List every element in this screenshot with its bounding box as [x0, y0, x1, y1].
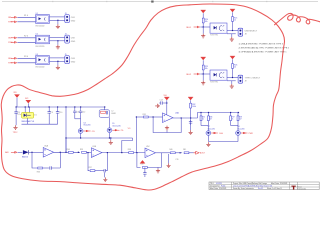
wire — [227, 33, 236, 35]
svg-text:R40: R40 — [169, 149, 172, 151]
svg-text:U1: U1 — [36, 13, 38, 15]
svg-text:TLP2770: TLP2770 — [210, 35, 218, 37]
port AIN — [11, 151, 18, 154]
wire — [227, 77, 238, 79]
resistor R20 — [202, 18, 204, 23]
svg-text:U2: U2 — [36, 33, 38, 35]
svg-text:Mod. Date: 7/14/2023: Mod. Date: 7/14/2023 — [210, 187, 226, 190]
wire — [18, 151, 23, 153]
wire — [54, 151, 80, 153]
svg-text:5V0: 5V0 — [164, 95, 167, 97]
svg-text:2k: 2k — [202, 119, 204, 121]
svg-text:www.ti.com/tool/TIDA-010933 A: www.ti.com/tool/TIDA-010933 Assembly Var… — [233, 184, 272, 187]
ground — [189, 130, 193, 134]
svg-text:Instruments: Instruments — [297, 187, 306, 190]
ground — [56, 24, 60, 28]
node LED return bus — [66, 137, 133, 139]
op-amp U5C — [145, 148, 156, 158]
red freehand lasso — [1, 4, 284, 190]
resistor R40 — [170, 152, 175, 154]
svg-text:Mod. Date: 7/14/2023: Mod. Date: 7/14/2023 — [271, 182, 287, 185]
svg-text:600R: 600R — [111, 113, 116, 115]
wire — [227, 80, 236, 82]
wire — [50, 16, 65, 18]
ground — [201, 81, 205, 85]
connector J3 — [65, 15, 70, 23]
port IN3+ — [11, 57, 18, 60]
svg-text:0.1u: 0.1u — [18, 114, 22, 116]
power VCC — [164, 97, 169, 100]
svg-text:R38: R38 — [128, 149, 131, 151]
capacitor C14 — [159, 101, 164, 104]
svg-text:J4: J4 — [65, 33, 67, 35]
wire — [175, 152, 182, 154]
svg-text:1) USB-A SHORTED : POWER LIMIT: 1) USB-A SHORTED : POWER LIMIT IS TYPE 3 — [239, 42, 284, 45]
resistor R39 — [143, 166, 148, 168]
wire — [17, 57, 35, 59]
power VCC — [201, 57, 206, 60]
ground — [56, 65, 60, 69]
svg-text:R39: R39 — [141, 163, 144, 165]
wire feedback up — [65, 138, 67, 152]
TVS diode D1 highlighted — [22, 112, 34, 118]
port IN2- — [11, 41, 18, 44]
ground — [206, 142, 210, 146]
svg-text:U3: U3 — [36, 54, 38, 56]
svg-text:Blue-LED: Blue-LED — [208, 128, 216, 130]
svg-text:10k: 10k — [205, 68, 208, 70]
red freehand tail loops — [275, 13, 320, 24]
resistor divider pair — [230, 113, 232, 117]
capacitor C16 — [48, 166, 53, 169]
wire — [200, 26, 210, 28]
optocoupler U10 — [210, 23, 227, 33]
svg-text:GND: GND — [71, 61, 76, 63]
wire — [29, 151, 43, 153]
capacitor C8 — [15, 107, 17, 110]
wire — [202, 27, 204, 34]
svg-text:SMBJ33A-TVS: SMBJ33A-TVS — [21, 120, 34, 123]
svg-text:R31: R31 — [143, 114, 146, 116]
svg-text:C12: C12 — [82, 111, 85, 113]
svg-text:TLP2770: TLP2770 — [210, 82, 218, 84]
svg-text:C11: C11 — [76, 111, 79, 113]
svg-text:R38: R38 — [239, 117, 242, 119]
svg-text:Red-LED: Red-LED — [84, 125, 92, 127]
svg-text:J5: J5 — [65, 54, 67, 56]
svg-text:R33: R33 — [37, 172, 40, 174]
power arrow down — [140, 160, 145, 163]
svg-text:Rev E1: Rev E1 — [258, 188, 263, 190]
wire — [106, 153, 108, 171]
wire — [207, 135, 209, 141]
wire — [17, 16, 35, 18]
optocoupler U11 — [210, 70, 227, 80]
connector J4 — [65, 35, 70, 43]
svg-text:RTN: RTN — [8, 63, 13, 65]
svg-text:10k: 10k — [205, 21, 208, 23]
sheet border top — [2, 1, 318, 3]
svg-text:R37: R37 — [89, 167, 92, 169]
port IN3- — [11, 62, 18, 65]
port EN1 — [194, 26, 201, 29]
power VCC — [230, 9, 235, 12]
isolator U2 — [36, 35, 50, 44]
op-amp U5A — [43, 148, 54, 158]
svg-text:R35: R35 — [80, 149, 83, 151]
capacitor C15 — [190, 118, 192, 130]
diode D2 — [23, 150, 29, 154]
wire — [231, 125, 238, 127]
wire — [17, 37, 35, 39]
svg-text:ISO1212D: ISO1212D — [36, 66, 45, 68]
wire — [53, 152, 60, 168]
capacitor C11 — [74, 107, 76, 109]
power 3V3 — [26, 100, 31, 103]
connector J8 — [238, 28, 243, 36]
capacitor C9 — [48, 107, 50, 110]
svg-text:R2 0: R2 0 — [24, 36, 28, 38]
svg-text:C9: C9 — [51, 112, 53, 114]
resistor R21 — [232, 17, 234, 22]
wire — [50, 36, 65, 38]
wire — [168, 154, 170, 163]
ground — [157, 167, 159, 168]
port IN1+ — [11, 16, 18, 19]
resistor R31 — [143, 116, 148, 118]
svg-text:RTN: RTN — [8, 42, 13, 44]
svg-text:1k: 1k — [234, 20, 236, 22]
wire — [57, 20, 59, 24]
port AOUT — [194, 151, 200, 154]
isolator U1 — [36, 15, 50, 24]
ground rotated — [155, 104, 159, 108]
power VCC — [188, 97, 193, 100]
capacitor C18 — [144, 167, 146, 171]
port EN2 — [194, 73, 201, 76]
svg-text:BAS16: BAS16 — [22, 155, 28, 158]
wire — [43, 167, 48, 169]
svg-text:R1 0: R1 0 — [24, 15, 28, 17]
resistor divider pair — [200, 113, 202, 117]
svg-text:J8: J8 — [245, 33, 247, 35]
svg-text:PWR: PWR — [249, 133, 254, 135]
svg-text:ISO1212D: ISO1212D — [36, 46, 45, 48]
op-amp U4A — [163, 113, 174, 123]
resistor R38 — [129, 152, 134, 154]
node VIN bus — [16, 106, 105, 108]
ground — [13, 125, 17, 129]
svg-text:4k7: 4k7 — [239, 119, 242, 121]
svg-text:R35: R35 — [202, 117, 205, 119]
svg-text:Blue-LED: Blue-LED — [237, 128, 245, 130]
wire vertical — [135, 117, 137, 153]
svg-text:Green-LED: Green-LED — [112, 124, 121, 127]
ground — [166, 130, 168, 132]
svg-text:3V3: 3V3 — [25, 98, 28, 100]
power VCC — [14, 95, 19, 98]
wire — [237, 135, 239, 141]
capacitor C13 — [106, 111, 107, 115]
svg-text:CHG: CHG — [219, 133, 224, 135]
svg-text:J9: J9 — [245, 80, 247, 82]
capacitor C12 — [80, 107, 82, 109]
wire — [200, 73, 210, 75]
wire — [109, 117, 111, 128]
svg-text:2k: 2k — [232, 119, 234, 121]
svg-text:TYPE C SELECT: TYPE C SELECT — [245, 77, 261, 79]
op-amp U5B — [91, 148, 102, 158]
port IN2+ — [11, 37, 18, 40]
power VCC — [201, 10, 206, 13]
svg-text:J3: J3 — [65, 13, 67, 15]
wire — [102, 152, 145, 154]
ground — [104, 172, 106, 177]
wire — [147, 153, 161, 168]
wire — [189, 152, 194, 154]
resistor R37 — [90, 170, 95, 172]
ground — [56, 45, 60, 49]
port IN1- — [11, 21, 18, 24]
wire feedback — [153, 117, 181, 133]
svg-text:R37: R37 — [232, 117, 235, 119]
svg-text:4k7: 4k7 — [209, 119, 212, 121]
svg-text:D1: D1 — [34, 114, 36, 116]
wire — [27, 118, 29, 124]
svg-text:R36: R36 — [209, 117, 212, 119]
wire — [95, 170, 102, 172]
wire — [80, 133, 82, 138]
svg-text:R41: R41 — [183, 149, 186, 151]
resistor R35b — [82, 151, 87, 153]
svg-text:GND: GND — [71, 41, 76, 43]
resistor R34 — [68, 151, 73, 153]
svg-text:C19: C19 — [175, 159, 178, 161]
resistor R33 — [38, 167, 43, 169]
power VCC — [230, 56, 235, 59]
resistor R41 — [184, 152, 189, 154]
svg-text:C14: C14 — [160, 99, 163, 101]
wire — [65, 107, 67, 152]
ground — [167, 163, 171, 167]
ground — [230, 84, 234, 88]
svg-text:C10: C10 — [59, 112, 62, 114]
wire — [75, 118, 81, 120]
wire — [57, 61, 59, 65]
wire — [173, 117, 198, 119]
wire — [156, 152, 171, 154]
svg-text:100k: 100k — [192, 106, 196, 108]
resistor R30 red — [101, 111, 106, 113]
wire — [202, 74, 204, 81]
wire — [122, 138, 133, 153]
svg-text:2) SHORTED AND ALT PIN : POWER: 2) SHORTED AND ALT PIN : POWER LIMIT IS … — [239, 47, 290, 50]
ground — [230, 37, 234, 41]
svg-text:R3 0: R3 0 — [24, 56, 28, 58]
feedback network — [32, 152, 37, 168]
svg-text:R34: R34 — [67, 149, 70, 151]
wire LED return — [208, 141, 238, 143]
feedback network 2 — [88, 153, 90, 171]
capacitor C10 — [57, 107, 59, 110]
svg-text:GND: GND — [71, 20, 76, 22]
ground — [201, 34, 205, 38]
TI logo — [291, 186, 295, 190]
wire — [50, 57, 65, 59]
filter loop — [104, 107, 106, 110]
svg-text:USB SELECT: USB SELECT — [245, 30, 258, 32]
wire — [201, 125, 208, 127]
wire — [148, 116, 162, 118]
svg-text:3) OPEN AND A SHORTED : POWER: 3) OPEN AND A SHORTED : POWER LIMIT TYPE… — [239, 51, 288, 54]
connector J5 — [65, 56, 70, 64]
wire — [86, 151, 91, 153]
connector J9 — [238, 75, 243, 83]
resistor R32 — [190, 103, 192, 108]
svg-text:RTN: RTN — [8, 22, 13, 24]
svg-text:1k: 1k — [234, 67, 236, 69]
capacitor C17 — [102, 169, 107, 172]
wire — [227, 30, 238, 32]
feedback network 3 — [137, 153, 141, 168]
title block — [209, 182, 319, 190]
wire — [57, 41, 59, 45]
wire — [136, 116, 143, 118]
svg-text:U5C: U5C — [146, 146, 150, 148]
svg-text:ISO1212D: ISO1212D — [36, 25, 45, 27]
ground — [110, 138, 112, 140]
isolator U3 — [36, 56, 50, 65]
resistor R22 — [232, 64, 234, 69]
resistor R21 — [202, 65, 204, 70]
